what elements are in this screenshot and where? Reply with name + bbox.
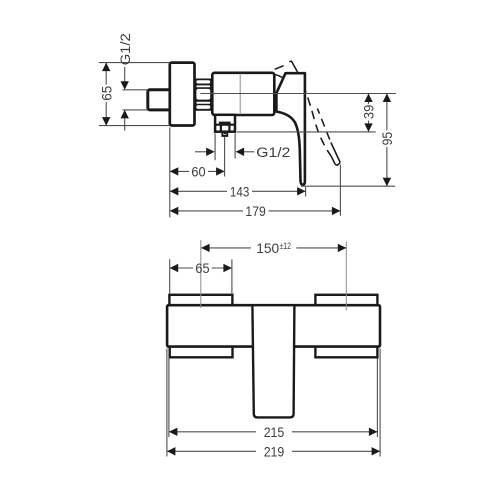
svg-text:G1/2: G1/2	[118, 33, 134, 65]
svg-text:60: 60	[191, 163, 205, 179]
svg-text:215: 215	[264, 424, 285, 440]
svg-text:±12: ±12	[280, 241, 291, 251]
left flange top part	[169, 295, 232, 307]
dashed open-handle right edge	[317, 109, 331, 143]
dimension 150 +/-12	[201, 240, 346, 256]
extension line handle tip to right	[301, 185, 395, 187]
dashed open-handle right edge solid tail	[331, 143, 340, 163]
dimension 65 front	[170, 259, 232, 294]
centre axis line	[200, 93, 396, 95]
left flange centreline	[200, 240, 202, 308]
svg-text:95: 95	[379, 132, 395, 146]
left flange bottom part	[170, 346, 233, 358]
dashed open-handle apex segment	[289, 61, 297, 71]
svg-text:219: 219	[264, 444, 285, 460]
mixer body housing	[212, 73, 274, 115]
wall plate escutcheon	[170, 63, 195, 126]
lever handle solid closed position	[276, 73, 305, 185]
extension line fitting bottom	[123, 109, 148, 111]
svg-text:G1/2: G1/2	[256, 145, 290, 161]
dimension 215	[169, 359, 378, 441]
right flange bottom part	[315, 346, 377, 358]
hex union nut	[195, 79, 213, 111]
svg-text:65: 65	[195, 260, 209, 276]
body bar front	[167, 305, 380, 346]
label G1/2 top with leader arrows	[118, 33, 134, 130]
dimension 219	[167, 349, 380, 460]
shower hose outlet housing	[215, 115, 235, 132]
svg-text:39: 39	[361, 104, 377, 119]
extension line outlet centre, vertical	[224, 137, 226, 177]
label G1/2 outlet with arrows	[195, 145, 290, 161]
dimension 95	[379, 94, 395, 187]
handle front view	[252, 305, 294, 417]
svg-text:143: 143	[230, 184, 250, 200]
svg-text:179: 179	[245, 203, 266, 219]
extension line fitting top	[123, 89, 148, 91]
dimension 65 vertical (wall plate height)	[98, 63, 114, 126]
outlet hex facet lines	[221, 125, 230, 132]
extension line wall plate left, vertical	[169, 127, 171, 217]
outlet nozzle tip	[222, 132, 227, 136]
dashed open-handle left edge	[297, 72, 331, 157]
right flange top part	[315, 295, 377, 307]
dimension 143	[170, 184, 306, 200]
extension line outlet left, vertical	[214, 133, 216, 160]
extension line outlet bottom to right	[237, 131, 376, 133]
extension line wall plate bottom	[99, 125, 170, 127]
extension line wall plate top	[99, 62, 170, 64]
outlet hex chamfer bar	[219, 122, 231, 126]
dimension 179	[170, 203, 341, 219]
dashed open-handle silhouette segment 1	[275, 66, 284, 70]
svg-text:150: 150	[256, 240, 279, 256]
right flange centreline	[345, 242, 347, 311]
extension line handle tip, vertical	[305, 187, 307, 197]
outlet hex shoulder line	[215, 124, 235, 126]
body part split line	[239, 74, 241, 115]
dimension 60	[170, 163, 225, 179]
svg-text:65: 65	[98, 86, 114, 101]
dashed open-handle tip	[331, 156, 340, 165]
extension line dashed tip, vertical	[339, 165, 341, 216]
dashed open-handle base curve	[275, 74, 283, 77]
extension line outlet right, vertical	[234, 133, 236, 158]
dimension 39	[361, 94, 377, 132]
square G1/2 inlet fitting	[148, 90, 172, 110]
